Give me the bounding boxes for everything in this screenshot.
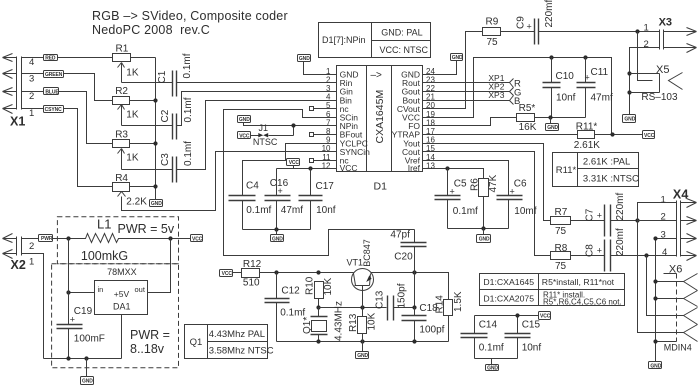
svg-text:GREEN: GREEN: [45, 72, 63, 78]
resistor R12 510: [233, 259, 354, 289]
svg-text:GND: GND: [299, 56, 310, 62]
svg-text:10K: 10K: [323, 277, 334, 295]
nc square pin11: [310, 159, 314, 163]
node junction X6 gnd: [653, 339, 657, 343]
node junction C19/gnd: [66, 356, 70, 360]
svg-text:CSYNC: CSYNC: [45, 107, 62, 113]
svg-text:RS–103: RS–103: [641, 92, 678, 103]
node junction X5 shield top: [627, 71, 631, 75]
capacitor C9 220mf: [516, 0, 660, 45]
svg-text:R5*install, R11*not: R5*install, R11*not: [542, 277, 615, 287]
connector X3: [644, 16, 697, 52]
svg-text:PWR =: PWR =: [130, 328, 170, 342]
svg-text:2.2K: 2.2K: [126, 197, 147, 208]
resistor R6 47K: [470, 174, 499, 228]
wire D1 pin5 nc stub: [314, 108, 337, 110]
wire X2.1 to gnd rail: [22, 254, 44, 359]
wire D1 pin18 FO to R5: [423, 118, 517, 126]
svg-text:1K: 1K: [126, 110, 139, 121]
wire net RED (X1.4 to R1): [22, 57, 113, 59]
wire C14/C15 VCC rail: [475, 315, 539, 317]
table D1[7]:NPin PAL/NTSC: [319, 23, 431, 58]
svg-text:2: 2: [29, 91, 34, 102]
wire R4 wiper to D1 pin10 SYNCin: [122, 152, 337, 211]
svg-text:150pf: 150pf: [397, 283, 408, 308]
title: [92, 9, 288, 37]
node junction R10/Q1: [316, 305, 320, 309]
svg-text:DA1: DA1: [113, 301, 131, 311]
ground (D1 pin24): [451, 54, 464, 62]
svg-text:78MXX: 78MXX: [107, 267, 137, 277]
wire D1 pin7 NPin to ground: [244, 123, 337, 126]
node junction base/R13: [360, 305, 364, 309]
power VCC (J1): [238, 132, 251, 140]
ground (D1 pin1): [298, 55, 311, 63]
svg-text:GND: PAL: GND: PAL: [381, 28, 422, 38]
svg-text:4.43MHz: 4.43MHz: [334, 301, 345, 341]
svg-text:4: 4: [29, 57, 34, 68]
svg-text:+5V: +5V: [114, 289, 130, 299]
node junction C12/R12: [274, 270, 278, 274]
wire D1 pin23 Rout to XP1: [423, 79, 514, 88]
resistor R9 75: [483, 17, 535, 49]
resistor R3 1K (pot): [113, 130, 173, 170]
svg-text:R14: R14: [434, 295, 445, 314]
svg-text:D1:CXA1645: D1:CXA1645: [483, 277, 534, 287]
dashed box regulator: [52, 264, 179, 368]
wire D1 pin21 Bout to XP3: [423, 96, 514, 105]
capacitor C7 220mf: [585, 192, 638, 236]
wire D1 pin6 SCin to C20 (subcarrier loop): [224, 110, 415, 256]
resistor R4 2.2K (pot): [113, 173, 156, 207]
svg-text:GND: GND: [650, 363, 661, 369]
ground (NPin): [238, 116, 251, 124]
svg-text:100mF: 100mF: [74, 334, 105, 345]
svg-text:+: +: [597, 211, 602, 221]
svg-text:X3: X3: [659, 16, 672, 28]
svg-text:GND: GND: [239, 117, 250, 123]
wire D1 pin19 VCC to C10/C11 rail: [423, 58, 612, 135]
svg-text:1: 1: [644, 23, 649, 34]
wire X2.2 PWR net: [22, 238, 69, 240]
crystal Q1*: [302, 308, 328, 342]
connector X5 RS-103: [630, 32, 683, 104]
svg-text:4.43Mhz PAL: 4.43Mhz PAL: [209, 329, 265, 340]
svg-text:MDIN4: MDIN4: [664, 343, 692, 353]
node junction DA1 in: [66, 290, 70, 294]
capacitor C20 47pf: [390, 229, 426, 272]
svg-text:C5: C5: [454, 179, 467, 190]
svg-text:R5*,R6,C4,C5,C6 not.: R5*,R6,C4,C5,C6 not.: [543, 297, 622, 306]
svg-text:C7: C7: [585, 208, 596, 221]
svg-text:47K: 47K: [488, 174, 499, 192]
svg-text:100pf: 100pf: [419, 325, 444, 336]
node junction R13/gnd: [360, 339, 364, 343]
svg-text:C13: C13: [374, 290, 385, 309]
node junction Iref: [445, 166, 449, 170]
svg-text:2: 2: [29, 241, 34, 252]
wire C7 node to X4 pin1/pin2: [638, 203, 677, 221]
svg-text:X4: X4: [673, 188, 689, 202]
ground (X6): [649, 362, 662, 370]
svg-text:510: 510: [243, 278, 260, 289]
svg-text:GND: GND: [624, 116, 635, 122]
capacitor C15 10nf: [505, 316, 542, 359]
wire C10/C11 bottoms to R5 node: [551, 117, 586, 119]
power VCC (R11): [643, 131, 655, 139]
svg-text:C3: C3: [160, 153, 171, 166]
svg-text:C9: C9: [516, 16, 527, 29]
resistor R13 10K: [348, 308, 378, 342]
node junction X6 pin1: [653, 279, 657, 283]
wire power gnd rail: [44, 358, 122, 360]
wire D1 pin20 CVout to R9: [423, 32, 483, 109]
svg-text:R6: R6: [470, 178, 481, 191]
wire D1 pin11 nc stub: [314, 160, 337, 162]
node junction R4/bus: [153, 184, 157, 188]
table D1 variant notes: [480, 274, 625, 307]
node junction J1/NPin: [291, 123, 295, 127]
wire D1 pin15 Cout to R8: [423, 152, 551, 256]
svg-text:C11: C11: [591, 67, 609, 78]
wire gnd rail C4/C16/C17: [243, 229, 311, 231]
svg-text:+: +: [278, 186, 283, 196]
svg-text:2: 2: [661, 212, 666, 223]
svg-text:8..18v: 8..18v: [130, 342, 165, 356]
svg-text:VCC: VCC: [239, 133, 250, 139]
node junction VCC tap: [168, 236, 172, 240]
wire D1 pin14 Vref to C6: [423, 161, 509, 196]
node junction X5 shield bottom: [627, 90, 631, 94]
wire net BLUE (X1.2 to R3): [22, 92, 113, 144]
capacitor C4 0.1mf: [229, 180, 272, 229]
node junction C18/gnd: [412, 339, 416, 343]
svg-text:100mkG: 100mkG: [81, 249, 128, 263]
svg-text:GND: GND: [452, 55, 463, 61]
svg-text:C15: C15: [522, 319, 541, 330]
svg-text:VCC: NTSC: VCC: NTSC: [380, 45, 429, 55]
svg-text:3.31K :NTSC: 3.31K :NTSC: [583, 174, 639, 185]
svg-text:220mf: 220mf: [615, 192, 626, 220]
svg-text:2.61K: 2.61K: [574, 140, 600, 151]
node junction R2/bus: [153, 98, 157, 102]
ground (R5 node): [546, 118, 559, 132]
node junction R3/bus: [153, 141, 157, 145]
svg-text:C4: C4: [246, 180, 259, 191]
svg-text:12: 12: [322, 161, 331, 170]
svg-text:GND: GND: [151, 201, 162, 207]
svg-text:GND: GND: [272, 236, 283, 242]
svg-text:1: 1: [29, 257, 34, 268]
svg-text:1.5K: 1.5K: [453, 291, 464, 312]
svg-text:out: out: [135, 285, 146, 294]
svg-text:R13: R13: [348, 313, 359, 332]
wire X3 pin2 ground net: [630, 48, 660, 115]
node XP1: [488, 73, 521, 90]
label PWR = 8..18v: [130, 328, 170, 356]
connector X6 MDIN4: [664, 264, 698, 353]
svg-text:CXA1645M: CXA1645M: [374, 90, 386, 144]
D1 right pin names: [392, 70, 421, 174]
svg-text:VCC: VCC: [340, 163, 358, 173]
resistor R14 1.5K: [434, 291, 464, 341]
connector X2: [3, 234, 35, 273]
svg-text:GND: GND: [357, 353, 368, 359]
svg-text:1: 1: [661, 194, 666, 205]
capacitor C16 47mf: [265, 169, 304, 230]
inductor L1 100mkG: [69, 217, 191, 263]
D1 left pin numbers 1-12: [322, 67, 331, 171]
wire DA1 out to 5v rail: [148, 239, 171, 293]
wire D1 pin24 to ground: [423, 61, 457, 75]
wire X4 pin4 to X6 pin3: [647, 256, 684, 316]
node junction X4 pin3: [653, 236, 657, 240]
svg-text:C19: C19: [74, 306, 93, 317]
svg-text:10nf: 10nf: [316, 205, 336, 216]
regulator DA1 78MXX: [95, 267, 148, 314]
node junction R11/VCC riser: [610, 132, 614, 136]
jumper J1 NTSC select: [251, 123, 294, 147]
svg-text:C17: C17: [316, 181, 335, 192]
svg-text:in: in: [98, 285, 104, 294]
svg-text:75: 75: [555, 261, 567, 272]
wire D1 pin1 to ground: [304, 62, 337, 75]
svg-text:10mf: 10mf: [514, 206, 536, 217]
svg-text:NedoPC 2008 rev.C: NedoPC 2008 rev.C: [92, 23, 210, 37]
power VCC (R12): [220, 270, 233, 278]
node junction gnd stem: [84, 356, 88, 360]
svg-text:1K: 1K: [126, 153, 139, 164]
wire C7 node to X6 pin4: [638, 221, 684, 333]
svg-text:VCC: VCC: [540, 314, 551, 320]
capacitor C11 47mf: [577, 58, 613, 118]
svg-text:L1: L1: [97, 217, 111, 232]
capacitor C6 10mf: [497, 179, 537, 229]
svg-text:J1: J1: [259, 123, 269, 133]
svg-text:13: 13: [426, 161, 435, 170]
table R11* values: [553, 153, 640, 187]
svg-text:C2: C2: [160, 109, 171, 122]
svg-text:47mf: 47mf: [281, 205, 303, 216]
svg-text:Q1: Q1: [190, 337, 203, 348]
svg-text:R11*: R11*: [556, 165, 577, 176]
svg-text:VT1: VT1: [347, 257, 364, 267]
svg-text:VCC: VCC: [192, 236, 203, 242]
svg-text:X2: X2: [11, 258, 26, 272]
svg-text:R1: R1: [116, 44, 129, 55]
resistor R1 1K (pot): [113, 44, 173, 83]
svg-text:VCC: VCC: [289, 160, 300, 166]
power VCC (D1 pin12): [287, 159, 300, 169]
node XP2: [488, 82, 521, 99]
node label RED: [44, 55, 58, 62]
D1 right pin numbers 24-13: [426, 67, 435, 171]
wire X6 pins 1,2: [656, 282, 684, 299]
ground (C4 rail): [271, 230, 284, 243]
svg-text:VCC: VCC: [644, 133, 655, 139]
wire D1 pin17 YTRAP to R11: [423, 134, 578, 136]
capacitor C17 10nf: [299, 169, 336, 230]
svg-text:Iref: Iref: [408, 163, 421, 173]
capacitor C18 100pf: [402, 303, 445, 341]
D1 left pin names: [340, 70, 371, 174]
svg-text:GND: GND: [547, 125, 558, 131]
svg-text:C10: C10: [556, 71, 575, 82]
ground (power rail): [81, 359, 94, 385]
node label BLUE: [44, 88, 60, 96]
svg-text:2: 2: [644, 39, 649, 50]
svg-text:GND: GND: [82, 378, 93, 384]
table Q1 frequencies: [185, 325, 274, 359]
node junction R10 top: [316, 270, 320, 274]
node junction C15/VCC: [515, 313, 519, 317]
transistor VT1 BC847: [347, 239, 374, 307]
svg-text:R2: R2: [115, 86, 128, 97]
ground (X3/X5): [623, 115, 636, 123]
svg-text:C14: C14: [479, 319, 498, 330]
capacitor C13 150pf: [374, 283, 414, 320]
node junction C11 top: [583, 55, 587, 59]
svg-text:1K: 1K: [126, 68, 139, 79]
wire DA1 in: [69, 292, 95, 294]
node junction C7/X4: [635, 218, 639, 222]
svg-text:4: 4: [662, 247, 667, 258]
svg-text:47mf: 47mf: [591, 93, 613, 104]
svg-text:R10: R10: [304, 276, 315, 295]
wire collector rail: [371, 273, 449, 300]
svg-text:D1:CXA2075: D1:CXA2075: [483, 293, 534, 303]
svg-text:75: 75: [555, 226, 567, 237]
capacitor C8 220mf: [585, 228, 677, 272]
capacitor C3 0.1mf: [160, 101, 337, 183]
node junction R5/C10/gnd: [548, 115, 552, 119]
node junction C17/pin12: [308, 166, 312, 170]
svg-text:X5: X5: [656, 64, 669, 76]
svg-text:1: 1: [29, 108, 34, 119]
svg-text:XP3: XP3: [488, 90, 504, 100]
svg-text:10nf: 10nf: [522, 343, 542, 354]
wire D1 pin12 VCC rail: [277, 168, 337, 170]
ground (oscillator): [356, 342, 369, 360]
svg-text:GND: GND: [487, 366, 498, 372]
ground (R bus): [150, 200, 163, 208]
wire D1 pin13 Iref node: [423, 169, 484, 179]
svg-text:X1: X1: [10, 115, 25, 129]
wire collector to C13/C18 node: [414, 273, 416, 308]
svg-text:47pf: 47pf: [390, 229, 410, 240]
node junction C13/C18: [412, 305, 416, 309]
node junction Q1/gnd: [316, 339, 320, 343]
node junction X4 pin4: [644, 253, 648, 257]
node junction C10 top: [549, 55, 553, 59]
node junction composite/X3: [635, 29, 639, 33]
svg-text:+: +: [527, 22, 532, 32]
resistor R5* 16K: [517, 103, 551, 133]
node junction R6/gnd rail: [481, 226, 485, 230]
svg-text:0.1mf: 0.1mf: [182, 53, 193, 78]
wire gnd rail C5/R6/C6: [448, 228, 509, 230]
connector X4: [661, 188, 697, 261]
capacitor C5 0.1mf: [435, 169, 479, 229]
capacitor C2 0.1mf: [160, 92, 337, 140]
svg-text:+: +: [597, 246, 602, 256]
wire X6 shield rail: [656, 341, 677, 343]
svg-text:BLUE: BLUE: [45, 90, 59, 96]
svg-text:75: 75: [487, 37, 499, 48]
capacitor C10 10nf: [543, 58, 576, 118]
svg-text:NTSC: NTSC: [253, 137, 278, 147]
svg-text:0.1mf: 0.1mf: [453, 206, 478, 217]
svg-text:220mf: 220mf: [615, 228, 626, 256]
op-amp/encoder IC U1 D1 CXA1645M: [337, 66, 423, 193]
svg-text:10nf: 10nf: [556, 93, 576, 104]
svg-text:R3: R3: [115, 130, 128, 141]
wire D1 pin22 Gout to XP2: [423, 88, 514, 96]
nc square pin8: [310, 133, 314, 137]
svg-text:C1: C1: [157, 70, 168, 83]
svg-text:R5*: R5*: [519, 103, 536, 114]
dashed box PWR=5v: [57, 217, 178, 264]
ground (C5 rail): [477, 229, 491, 243]
power VCC (C14/C15): [539, 312, 551, 320]
wire C14/C15 gnd rail: [475, 359, 518, 365]
wire D1 pin8 BFout stub: [314, 134, 337, 136]
svg-text:16K: 16K: [519, 122, 537, 133]
svg-text:0.1mf: 0.1mf: [479, 343, 504, 354]
resistor R10 10K: [304, 276, 334, 307]
svg-text:3: 3: [29, 74, 34, 85]
svg-text:GND: GND: [479, 237, 490, 243]
wire oscillator gnd rail: [277, 341, 449, 343]
svg-text:220mf: 220mf: [544, 0, 555, 28]
svg-text:BC847: BC847: [362, 239, 372, 267]
resistor R2 1K (pot): [113, 86, 173, 126]
node junction L1/X2: [66, 236, 70, 240]
wire base node rail: [319, 307, 387, 309]
capacitor C12 0.1mf: [265, 273, 306, 342]
svg-text:D1: D1: [374, 181, 388, 193]
node label PWR: [39, 235, 53, 243]
svg-text:3.58Mhz NTSC: 3.58Mhz NTSC: [209, 346, 274, 357]
node junction C16/gnd rail: [274, 227, 278, 231]
node junction X6 pin2: [653, 296, 657, 300]
svg-text:C20: C20: [394, 252, 413, 263]
wire D1 pin9 YCLPC to C4: [243, 144, 337, 196]
wire D1 pin16 Yout to R7: [423, 144, 551, 221]
wire net CSYNC (X1.1 to R4): [22, 109, 113, 187]
resistor R8 75: [551, 243, 605, 272]
node label GREEN: [44, 71, 64, 78]
svg-text:D1[7]:NPin: D1[7]:NPin: [322, 35, 366, 45]
wire ground bus (R1-R4 right legs): [155, 58, 157, 200]
capacitor C19 100mF: [57, 239, 105, 359]
ground (C14/C15): [486, 365, 499, 372]
node XP3: [488, 90, 520, 107]
node label CSYNC: [44, 106, 64, 114]
wire X4 pin3 net: [656, 239, 677, 362]
resistor R11* 2.61K: [574, 122, 643, 152]
svg-text:RED: RED: [45, 56, 56, 62]
svg-text:2.61K :PAL: 2.61K :PAL: [583, 157, 630, 168]
capacitor C1 0.1mf: [157, 53, 336, 96]
connector X1: [3, 54, 35, 129]
resistor R7 75: [551, 207, 605, 237]
svg-text:Q1*: Q1*: [302, 317, 313, 334]
svg-text:0.1mf: 0.1mf: [183, 141, 194, 166]
svg-text:C12: C12: [281, 286, 300, 297]
svg-text:–>: –>: [371, 70, 383, 81]
svg-text:VCC: VCC: [222, 271, 233, 277]
